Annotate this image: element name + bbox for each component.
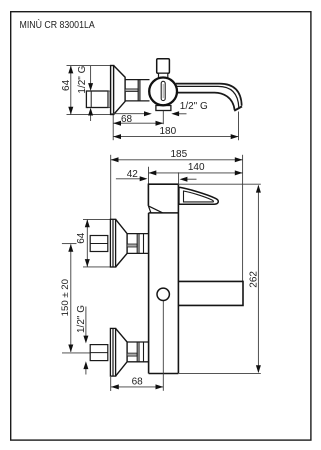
svg-text:68: 68 [121, 114, 133, 125]
svg-text:185: 185 [170, 149, 187, 160]
svg-text:64: 64 [76, 232, 87, 244]
svg-text:42: 42 [127, 169, 139, 180]
svg-text:1/2" G: 1/2" G [76, 305, 87, 333]
svg-text:140: 140 [188, 162, 205, 173]
svg-text:180: 180 [159, 126, 176, 137]
svg-text:262: 262 [248, 271, 259, 288]
svg-text:68: 68 [132, 376, 144, 387]
svg-text:1/2" G: 1/2" G [180, 101, 208, 112]
svg-text:150 ± 20: 150 ± 20 [60, 279, 71, 316]
svg-text:1/2" G: 1/2" G [77, 65, 88, 93]
svg-text:MINÙ CR 83001LA: MINÙ CR 83001LA [20, 19, 96, 31]
svg-text:64: 64 [61, 79, 72, 91]
